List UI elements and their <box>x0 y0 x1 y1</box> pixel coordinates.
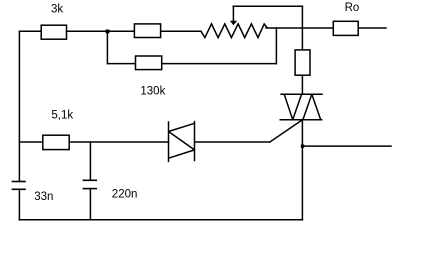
wire middle horizontal left <box>19 141 168 143</box>
node junction after 3k <box>106 30 110 34</box>
triac apex dot <box>311 94 314 97</box>
svg-text:130k: 130k <box>140 86 165 98</box>
wire bottom horizontal <box>19 219 302 221</box>
wire triac gate diagonal <box>270 120 302 142</box>
svg-text:5,1k: 5,1k <box>51 109 73 121</box>
node triac output junction <box>301 145 304 148</box>
svg-text:33n: 33n <box>34 191 53 203</box>
svg-text:3k: 3k <box>51 4 63 16</box>
wire left vertical <box>18 31 20 181</box>
wire triac output right <box>302 145 391 147</box>
resistor vertical right <box>295 50 310 75</box>
capacitor C2 220n plates <box>83 180 98 188</box>
triac T1 <box>280 94 323 120</box>
svg-text:220n: 220n <box>112 188 138 200</box>
wire top-right horizontal <box>266 27 386 29</box>
wire middle horizontal right <box>195 141 271 143</box>
resistor upper parallel box <box>134 24 160 38</box>
resistor R3 5,1k <box>43 135 69 149</box>
wire top-left horizontal <box>19 30 201 32</box>
resistor Ro <box>333 21 358 35</box>
wire lower branch horizontal <box>107 63 276 65</box>
wire junction branch vertical <box>106 31 108 63</box>
resistor R1 3k <box>41 25 66 39</box>
wire right vertical upper <box>301 6 303 50</box>
resistor R2 130k <box>136 56 162 70</box>
wire cap220n lower lead <box>89 189 91 220</box>
capacitor C1 33n plates <box>12 182 26 190</box>
wire right vertical lower <box>301 120 303 220</box>
diac D1 <box>169 121 195 162</box>
wire cap33n lower lead <box>18 189 20 220</box>
potentiometer zigzag 130k <box>201 24 267 38</box>
wire wiper top horizontal <box>233 5 302 7</box>
potentiometer wiper arrow stem <box>232 6 234 21</box>
wire lower branch riser <box>275 28 277 64</box>
svg-text:Ro: Ro <box>345 2 360 14</box>
wire cap220n upper lead <box>89 142 91 180</box>
wire right vertical to triac <box>301 75 303 94</box>
potentiometer wiper arrowhead <box>230 21 237 25</box>
